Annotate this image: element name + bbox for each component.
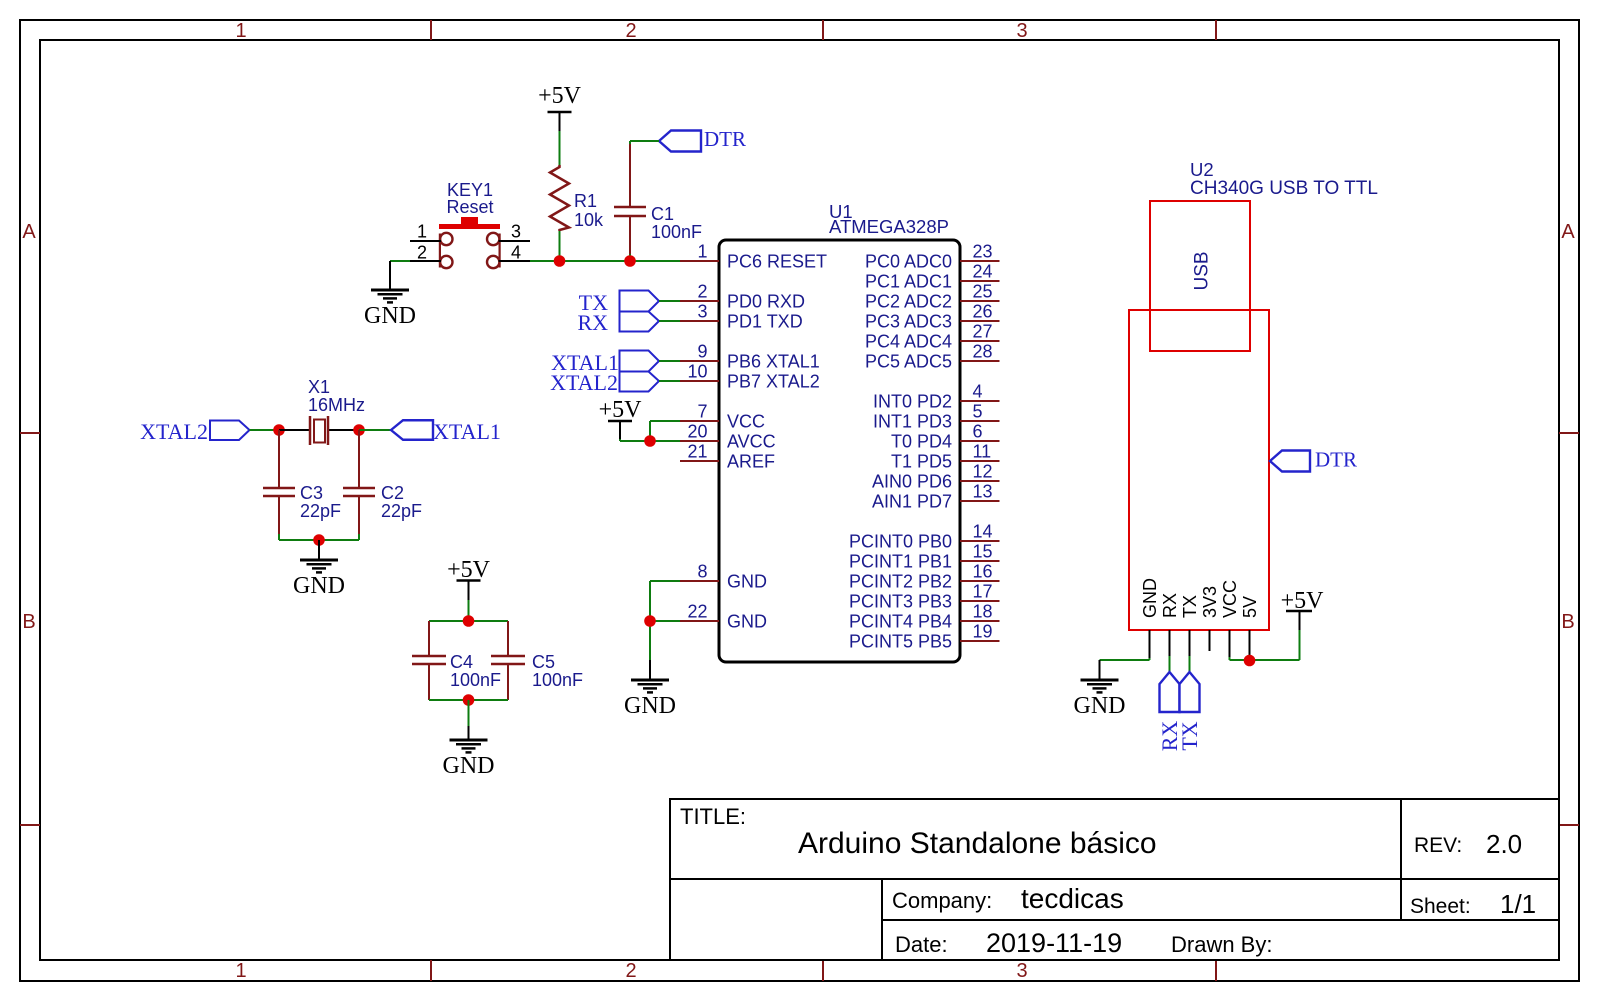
svg-text:PB6 XTAL1: PB6 XTAL1 <box>727 352 820 372</box>
svg-text:C4: C4 <box>450 652 473 672</box>
svg-text:PD0 RXD: PD0 RXD <box>727 292 805 312</box>
svg-text:9: 9 <box>697 342 707 362</box>
svg-text:3: 3 <box>1016 20 1027 42</box>
svg-text:5V: 5V <box>1240 596 1260 618</box>
svg-text:1: 1 <box>235 960 246 982</box>
svg-text:B: B <box>1561 611 1574 633</box>
svg-text:TX: TX <box>1177 721 1202 750</box>
svg-text:5: 5 <box>973 402 983 422</box>
svg-text:AREF: AREF <box>727 452 775 472</box>
svg-text:24: 24 <box>973 262 993 282</box>
svg-text:2: 2 <box>625 20 636 42</box>
svg-text:CH340G USB TO TTL: CH340G USB TO TTL <box>1190 178 1378 199</box>
svg-text:25: 25 <box>973 282 993 302</box>
svg-text:PCINT4 PB4: PCINT4 PB4 <box>849 612 952 632</box>
svg-text:23: 23 <box>973 242 993 262</box>
svg-text:3: 3 <box>511 222 521 242</box>
svg-text:PCINT5 PB5: PCINT5 PB5 <box>849 632 952 652</box>
svg-text:26: 26 <box>973 302 993 322</box>
svg-text:C2: C2 <box>381 483 404 503</box>
svg-text:A: A <box>1561 221 1575 243</box>
svg-text:INT1 PD3: INT1 PD3 <box>873 412 952 432</box>
svg-text:Arduino Standalone básico: Arduino Standalone básico <box>798 827 1157 860</box>
svg-text:+5V: +5V <box>538 83 582 109</box>
svg-text:21: 21 <box>687 442 707 462</box>
svg-text:A: A <box>22 221 36 243</box>
svg-text:TX: TX <box>1180 595 1200 618</box>
svg-text:Drawn By:: Drawn By: <box>1171 932 1272 957</box>
svg-text:27: 27 <box>973 322 993 342</box>
svg-text:4: 4 <box>511 243 521 263</box>
svg-text:PC5 ADC5: PC5 ADC5 <box>865 352 952 372</box>
svg-text:Company:: Company: <box>892 888 992 913</box>
svg-text:GND: GND <box>727 572 767 592</box>
svg-text:20: 20 <box>687 422 707 442</box>
svg-text:PC2 ADC2: PC2 ADC2 <box>865 292 952 312</box>
svg-text:22pF: 22pF <box>300 501 341 521</box>
svg-text:3V3: 3V3 <box>1200 586 1220 618</box>
svg-text:GND: GND <box>443 753 495 779</box>
svg-text:15: 15 <box>973 542 993 562</box>
svg-text:PCINT2 PB2: PCINT2 PB2 <box>849 572 952 592</box>
svg-text:3: 3 <box>1016 960 1027 982</box>
svg-text:C5: C5 <box>532 652 555 672</box>
svg-text:AIN1 PD7: AIN1 PD7 <box>872 492 952 512</box>
svg-text:12: 12 <box>973 462 993 482</box>
svg-text:GND: GND <box>364 303 416 329</box>
svg-text:13: 13 <box>973 482 993 502</box>
svg-text:XTAL2: XTAL2 <box>140 419 208 444</box>
svg-text:T0 PD4: T0 PD4 <box>891 432 952 452</box>
svg-text:RX: RX <box>1160 593 1180 618</box>
svg-text:2: 2 <box>697 282 707 302</box>
svg-text:6: 6 <box>973 422 983 442</box>
svg-text:2: 2 <box>625 960 636 982</box>
svg-text:RX: RX <box>577 310 608 335</box>
svg-text:R1: R1 <box>574 191 597 211</box>
svg-text:PCINT3 PB3: PCINT3 PB3 <box>849 592 952 612</box>
svg-text:14: 14 <box>973 522 993 542</box>
svg-text:1: 1 <box>235 20 246 42</box>
svg-text:16MHz: 16MHz <box>308 395 365 415</box>
svg-text:AVCC: AVCC <box>727 432 776 452</box>
svg-text:8: 8 <box>697 562 707 582</box>
svg-text:DTR: DTR <box>1315 448 1357 472</box>
svg-text:16: 16 <box>973 562 993 582</box>
svg-text:C3: C3 <box>300 483 323 503</box>
svg-text:PCINT1 PB1: PCINT1 PB1 <box>849 552 952 572</box>
svg-text:U2: U2 <box>1190 159 1214 180</box>
svg-text:19: 19 <box>973 622 993 642</box>
svg-text:Sheet:: Sheet: <box>1410 895 1471 918</box>
svg-text:PCINT0 PB0: PCINT0 PB0 <box>849 532 952 552</box>
svg-text:X1: X1 <box>308 377 330 397</box>
svg-text:+5V: +5V <box>599 397 643 423</box>
svg-text:1/1: 1/1 <box>1500 889 1536 919</box>
svg-text:XTAL2: XTAL2 <box>550 370 618 395</box>
svg-text:C1: C1 <box>651 204 674 224</box>
svg-text:2: 2 <box>417 243 427 263</box>
svg-text:TITLE:: TITLE: <box>680 804 746 829</box>
svg-text:PD1 TXD: PD1 TXD <box>727 312 803 332</box>
svg-text:PB7 XTAL2: PB7 XTAL2 <box>727 372 820 392</box>
svg-text:Reset: Reset <box>446 197 493 217</box>
svg-text:1: 1 <box>697 242 707 262</box>
svg-text:GND: GND <box>1074 693 1126 719</box>
svg-text:18: 18 <box>973 602 993 622</box>
svg-text:XTAL1: XTAL1 <box>433 419 501 444</box>
svg-text:100nF: 100nF <box>532 670 583 690</box>
svg-text:7: 7 <box>697 402 707 422</box>
svg-text:PC6 RESET: PC6 RESET <box>727 252 827 272</box>
svg-text:28: 28 <box>973 342 993 362</box>
svg-text:GND: GND <box>293 573 345 599</box>
svg-text:Date:: Date: <box>895 932 948 957</box>
svg-text:tecdicas: tecdicas <box>1021 883 1124 914</box>
svg-text:PC0 ADC0: PC0 ADC0 <box>865 252 952 272</box>
svg-text:17: 17 <box>973 582 993 602</box>
svg-text:DTR: DTR <box>704 127 746 151</box>
svg-text:ATMEGA328P: ATMEGA328P <box>829 216 949 237</box>
svg-text:T1 PD5: T1 PD5 <box>891 452 952 472</box>
svg-text:2.0: 2.0 <box>1486 829 1522 859</box>
svg-text:10: 10 <box>687 362 707 382</box>
svg-text:11: 11 <box>973 442 992 462</box>
svg-text:100nF: 100nF <box>450 670 501 690</box>
svg-text:PC3 ADC3: PC3 ADC3 <box>865 312 952 332</box>
svg-text:22pF: 22pF <box>381 501 422 521</box>
svg-text:3: 3 <box>697 302 707 322</box>
svg-text:+5V: +5V <box>447 557 491 583</box>
svg-text:10k: 10k <box>574 210 604 230</box>
svg-text:REV:: REV: <box>1414 834 1462 857</box>
svg-text:2019-11-19: 2019-11-19 <box>986 928 1122 958</box>
svg-text:1: 1 <box>417 222 427 242</box>
svg-text:PC4 ADC4: PC4 ADC4 <box>865 332 952 352</box>
svg-text:VCC: VCC <box>727 412 765 432</box>
svg-text:GND: GND <box>624 693 676 719</box>
svg-text:100nF: 100nF <box>651 222 702 242</box>
svg-text:GND: GND <box>727 612 767 632</box>
svg-text:4: 4 <box>973 382 983 402</box>
svg-text:B: B <box>22 611 35 633</box>
svg-text:GND: GND <box>1140 578 1160 618</box>
svg-text:VCC: VCC <box>1220 580 1240 618</box>
svg-text:22: 22 <box>687 602 707 622</box>
svg-text:AIN0 PD6: AIN0 PD6 <box>872 472 952 492</box>
svg-text:INT0 PD2: INT0 PD2 <box>873 392 952 412</box>
svg-text:PC1 ADC1: PC1 ADC1 <box>865 272 952 292</box>
svg-text:USB: USB <box>1192 251 1213 290</box>
